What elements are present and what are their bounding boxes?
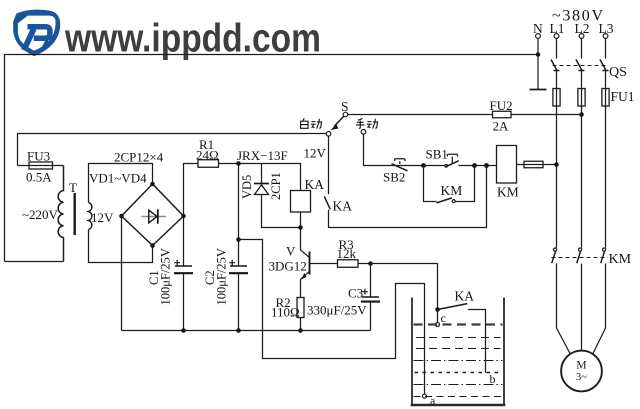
- wire R3 to node: [358, 263, 371, 265]
- node bridge bottom vertex: [150, 243, 155, 248]
- svg-text:M: M: [576, 360, 586, 372]
- KM main linkage dashed: [552, 257, 609, 259]
- contactor KM aux contact branch: [424, 166, 475, 203]
- water line 3: [416, 348, 501, 350]
- contactor KM main contact L2: [577, 248, 582, 263]
- switch S blade with arrow: [331, 116, 344, 130]
- water line 6 dash-dot: [414, 384, 503, 386]
- svg-text:12V: 12V: [91, 210, 114, 225]
- watermark logo shield: [13, 10, 60, 57]
- terminal L2: [579, 34, 584, 39]
- svg-text:330μF/25V: 330μF/25V: [307, 303, 367, 318]
- capacitor C2: [229, 166, 248, 331]
- wire to SB1: [424, 165, 446, 167]
- node C2 tap junction: [236, 237, 241, 242]
- switch S common: [343, 112, 348, 117]
- switch QS pole L2: [576, 60, 585, 71]
- switch QS pole L3: [600, 60, 609, 71]
- contactor KM main contact L1: [552, 248, 557, 263]
- wire secondary top to bridge: [89, 164, 153, 203]
- label manual (shou dong): [356, 118, 378, 128]
- wire KA contact to KM coil branch: [329, 166, 487, 228]
- node N junction: [536, 52, 541, 57]
- capacitor C3: [361, 264, 380, 331]
- wire motor lead L2: [581, 264, 583, 351]
- svg-text:KM: KM: [441, 183, 463, 198]
- wire DC plus riser and R1 line: [184, 164, 199, 217]
- wire FU2 to L2: [511, 114, 582, 116]
- wire L2 upper: [581, 38, 583, 58]
- svg-text:SB2: SB2: [383, 170, 405, 185]
- wire R2 bottom: [300, 318, 302, 331]
- wire primary bottom: [5, 261, 64, 263]
- svg-text:QS: QS: [609, 65, 627, 80]
- wire L1 upper: [556, 38, 558, 58]
- svg-text:JRX−13F: JRX−13F: [237, 148, 288, 163]
- wire FU3 line: [18, 165, 64, 167]
- svg-text:C3: C3: [348, 286, 363, 301]
- node bridge left vertex: [119, 214, 124, 219]
- motor M circle: [561, 351, 602, 392]
- wire N stub down: [537, 56, 539, 90]
- svg-text:FU3: FU3: [27, 149, 50, 164]
- wire S common to FU2: [348, 114, 493, 116]
- electrode a tip: [423, 394, 427, 398]
- node KM aux right junction: [472, 163, 477, 168]
- svg-text:KA: KA: [455, 289, 475, 304]
- svg-text:12k: 12k: [337, 246, 357, 261]
- node C1 bottom: [181, 328, 186, 333]
- water line 4 dash-dot: [414, 360, 503, 362]
- wire auto riser: [328, 136, 330, 194]
- svg-text:12V: 12V: [304, 146, 327, 161]
- water line 7: [414, 396, 503, 398]
- svg-text:100μF/25V: 100μF/25V: [215, 248, 229, 305]
- transistor V 3DG12: [301, 228, 310, 298]
- resistor R1: [198, 160, 219, 168]
- wire N vertical: [537, 38, 539, 56]
- wire C2 tap to electrode a: [239, 240, 425, 395]
- svg-text:c: c: [441, 311, 446, 325]
- switch QS pole L1: [551, 60, 560, 71]
- svg-text:KM: KM: [609, 252, 632, 267]
- node collector junction: [298, 225, 303, 230]
- svg-text:VD5: VD5: [240, 175, 254, 199]
- node C2 top junction: [236, 161, 241, 166]
- wire base line: [310, 263, 338, 265]
- node base-C3 junction: [368, 261, 373, 266]
- terminal L1: [554, 34, 559, 39]
- svg-text:2CP12×4: 2CP12×4: [114, 150, 164, 165]
- svg-text:VD1~VD4: VD1~VD4: [89, 171, 147, 186]
- terminal L3: [603, 34, 608, 39]
- svg-text:T: T: [69, 180, 77, 195]
- svg-text:SB1: SB1: [426, 147, 448, 162]
- svg-text:FU2: FU2: [490, 98, 513, 113]
- svg-text:110Ω: 110Ω: [271, 305, 300, 320]
- capacitor C1: [174, 218, 193, 331]
- wire base node to electrode c: [371, 264, 438, 310]
- svg-text:b: b: [490, 372, 496, 386]
- svg-text:0.5A: 0.5A: [26, 170, 52, 185]
- wire L3 upper: [605, 38, 607, 58]
- node SB junction: [421, 163, 426, 168]
- relay KA coil: [291, 191, 311, 213]
- fuse FU1 phase L2: [578, 89, 585, 107]
- relay contact KA tank: [438, 304, 468, 310]
- node C2 bottom: [236, 328, 241, 333]
- wire heater to L1: [543, 164, 557, 166]
- node KA riser junction: [484, 163, 489, 168]
- svg-text:V: V: [286, 244, 296, 259]
- water line 5 short dashes: [415, 372, 503, 374]
- transformer T secondary winding: [89, 203, 92, 230]
- node bridge top vertex: [150, 182, 155, 187]
- fuse FU1 phase L3: [602, 89, 609, 107]
- wire L2 mid: [581, 71, 583, 248]
- svg-text:24Ω: 24Ω: [196, 148, 219, 163]
- fuse FU2: [493, 111, 512, 118]
- svg-text:~220V: ~220V: [22, 207, 59, 222]
- svg-text:KA: KA: [333, 199, 353, 214]
- contactor KM coil: [497, 146, 517, 184]
- fuse FU3: [29, 162, 53, 169]
- wire KA fixed to electrode b: [468, 310, 486, 374]
- wire bottom rail: [122, 330, 371, 332]
- node KA tank pivot: [435, 307, 440, 312]
- N terminal bar: [530, 89, 547, 91]
- bridge inner diode: [149, 210, 157, 223]
- resistor R3: [338, 260, 359, 268]
- contact auto: [326, 132, 331, 137]
- wire manual riser: [364, 134, 392, 165]
- wire R1 to KA coil top: [219, 164, 301, 191]
- wire motor lead L3: [593, 264, 606, 354]
- contact manual: [361, 130, 366, 135]
- wire motor lead L1: [557, 264, 571, 354]
- QS linkage dashed: [553, 65, 609, 67]
- node FU2-L2 junction: [579, 112, 584, 117]
- transformer T core: [73, 193, 75, 235]
- tank bottom: [411, 404, 506, 407]
- wire secondary bottom to bridge: [89, 230, 153, 263]
- wire KM coil to heater: [517, 164, 525, 166]
- pushbutton SB2: [391, 159, 424, 171]
- wire SB1 to KM coil: [459, 165, 497, 167]
- node bridge right vertex: [181, 214, 186, 219]
- electrode c tip: [436, 312, 440, 327]
- svg-text:FU1: FU1: [611, 89, 635, 104]
- svg-text:3DG12: 3DG12: [269, 259, 307, 274]
- wire L1 mid: [556, 71, 558, 248]
- wire DC minus drop: [121, 216, 123, 331]
- wire auto rail: [18, 134, 327, 166]
- fuse FU1 phase L1: [553, 89, 560, 107]
- bridge inner diode lead: [142, 216, 167, 218]
- diode VD5: [254, 164, 301, 228]
- tank right wall: [503, 298, 505, 405]
- svg-text:100μF/25V: 100μF/25V: [159, 248, 173, 305]
- resistor R2: [297, 298, 304, 318]
- svg-text:2A: 2A: [493, 119, 510, 134]
- wire L3 mid: [605, 71, 607, 248]
- contactor KM main contact L3: [601, 248, 606, 263]
- svg-text:3~: 3~: [576, 372, 587, 383]
- label auto (bai dong): [301, 118, 322, 128]
- node L1 junction: [554, 162, 559, 167]
- svg-text:2CP1: 2CP1: [269, 172, 283, 200]
- pushbutton SB1: [445, 154, 459, 167]
- svg-text:KM: KM: [497, 185, 519, 200]
- tank left wall: [411, 298, 413, 405]
- transformer T primary winding: [58, 166, 63, 262]
- svg-text:KA: KA: [305, 177, 325, 192]
- bridge rectifier diamond: [122, 184, 184, 246]
- wire N rail to left edge: [5, 55, 539, 262]
- relay contact KA auto: [324, 196, 330, 209]
- water line 2: [416, 337, 501, 339]
- thermal element FR: [524, 161, 543, 168]
- terminal N: [536, 34, 541, 39]
- wire KA coil bottom: [300, 212, 302, 228]
- node R2 bottom: [298, 328, 303, 333]
- water level line bold: [414, 323, 503, 325]
